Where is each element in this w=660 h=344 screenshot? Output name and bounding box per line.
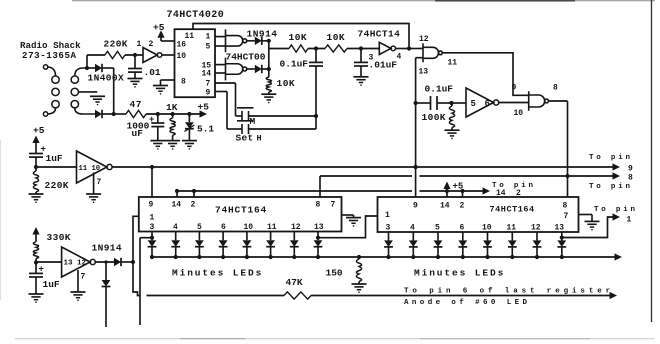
- svg-text:5.1: 5.1: [197, 124, 214, 135]
- svg-text:1: 1: [627, 216, 632, 225]
- svg-text:10: 10: [482, 223, 492, 232]
- svg-text:+: +: [149, 115, 154, 125]
- svg-text:6: 6: [460, 223, 465, 232]
- svg-text:47: 47: [130, 99, 142, 110]
- svg-text:5: 5: [435, 223, 440, 232]
- svg-text:7: 7: [331, 201, 336, 210]
- svg-text:1: 1: [137, 40, 142, 49]
- svg-text:7: 7: [97, 178, 102, 187]
- svg-text:6: 6: [221, 223, 226, 232]
- svg-text:1uF: 1uF: [46, 153, 63, 164]
- svg-text:1: 1: [150, 214, 155, 223]
- svg-text:150: 150: [326, 268, 343, 279]
- svg-text:12: 12: [419, 35, 429, 44]
- svg-text:10: 10: [244, 223, 254, 232]
- svg-text:9: 9: [149, 201, 154, 210]
- svg-text:14: 14: [440, 202, 450, 211]
- svg-text:6: 6: [485, 99, 490, 109]
- svg-text:2: 2: [149, 40, 154, 49]
- svg-text:13: 13: [419, 68, 429, 77]
- svg-text:To pin: To pin: [589, 183, 633, 191]
- svg-text:0.1uF: 0.1uF: [425, 84, 454, 95]
- svg-text:1: 1: [385, 211, 390, 220]
- svg-text:.01: .01: [144, 67, 161, 78]
- svg-text:4: 4: [173, 223, 178, 232]
- svg-text:To pin: To pin: [589, 154, 633, 162]
- svg-text:Set: Set: [236, 133, 254, 144]
- svg-text:12: 12: [531, 223, 541, 232]
- svg-text:+5: +5: [33, 125, 45, 136]
- svg-text:+5: +5: [198, 102, 210, 113]
- svg-text:+5: +5: [153, 22, 165, 33]
- svg-text:273-1365A: 273-1365A: [22, 50, 77, 61]
- svg-text:74HCT164: 74HCT164: [215, 205, 267, 216]
- svg-text:1K: 1K: [166, 102, 178, 113]
- svg-text:74HCT00: 74HCT00: [226, 52, 266, 63]
- svg-text:13: 13: [555, 223, 565, 232]
- svg-text:1uF: 1uF: [43, 279, 60, 290]
- svg-text:3: 3: [150, 223, 155, 232]
- svg-text:5: 5: [471, 99, 476, 109]
- svg-text:1N914: 1N914: [92, 243, 123, 254]
- svg-text:8: 8: [316, 201, 321, 210]
- svg-text:0.1uF: 0.1uF: [280, 59, 309, 70]
- svg-text:9: 9: [206, 89, 211, 98]
- svg-text:14: 14: [202, 70, 212, 79]
- svg-text:3: 3: [369, 54, 374, 63]
- svg-text:Minutes LEDs: Minutes LEDs: [414, 268, 505, 279]
- svg-text:16: 16: [177, 41, 187, 50]
- svg-text:13: 13: [314, 223, 324, 232]
- svg-text:To pin 6 of last register: To pin 6 of last register: [404, 288, 614, 296]
- svg-text:14: 14: [172, 201, 182, 210]
- svg-text:9: 9: [628, 165, 633, 174]
- svg-text:11 10: 11 10: [79, 165, 101, 173]
- svg-text:10K: 10K: [289, 32, 308, 43]
- svg-text:11: 11: [448, 59, 458, 68]
- svg-text:10K: 10K: [277, 78, 296, 89]
- svg-text:13 12: 13 12: [64, 260, 87, 268]
- svg-text:74HCT4020: 74HCT4020: [167, 10, 225, 21]
- svg-text:8: 8: [553, 84, 558, 93]
- svg-text:uF: uF: [132, 128, 144, 139]
- svg-text:220K: 220K: [104, 39, 128, 50]
- svg-text:M: M: [250, 116, 256, 127]
- svg-text:8: 8: [181, 78, 186, 87]
- svg-text:10: 10: [177, 52, 187, 61]
- svg-text:Minutes LEDs: Minutes LEDs: [172, 268, 263, 279]
- svg-text:11: 11: [507, 223, 517, 232]
- svg-text:Anode of #60 LED: Anode of #60 LED: [404, 299, 530, 307]
- svg-text:H: H: [257, 134, 262, 144]
- svg-text:10: 10: [514, 109, 524, 118]
- svg-text:1N400X: 1N400X: [88, 73, 125, 84]
- svg-text:74HCT164: 74HCT164: [490, 205, 535, 215]
- svg-text:330K: 330K: [47, 232, 71, 243]
- svg-text:11: 11: [267, 223, 277, 232]
- svg-text:8: 8: [563, 202, 568, 211]
- svg-text:5: 5: [197, 223, 202, 232]
- svg-text:8: 8: [628, 174, 633, 183]
- svg-text:4: 4: [397, 53, 402, 62]
- svg-text:1: 1: [206, 33, 211, 42]
- svg-text:9: 9: [413, 202, 418, 211]
- svg-text:220K: 220K: [45, 180, 69, 191]
- svg-text:7: 7: [81, 273, 86, 282]
- svg-text:To pin: To pin: [594, 206, 638, 214]
- svg-text:5: 5: [206, 43, 211, 52]
- svg-text:+: +: [39, 265, 44, 275]
- svg-text:10K: 10K: [327, 32, 346, 43]
- svg-text:7: 7: [206, 80, 211, 89]
- svg-text:100K: 100K: [422, 112, 446, 123]
- svg-text:4: 4: [410, 223, 415, 232]
- svg-text:12: 12: [291, 223, 301, 232]
- svg-text:2: 2: [191, 201, 196, 210]
- svg-text:2: 2: [460, 202, 465, 211]
- svg-text:74HCT14: 74HCT14: [358, 29, 401, 40]
- svg-text:47K: 47K: [286, 277, 303, 288]
- svg-text:3: 3: [386, 223, 391, 232]
- svg-text:9: 9: [512, 84, 517, 93]
- svg-text:7: 7: [564, 212, 569, 221]
